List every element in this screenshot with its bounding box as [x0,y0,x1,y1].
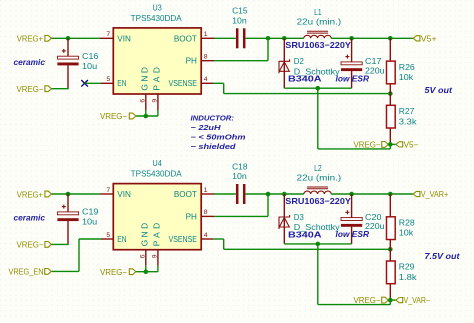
junction ground rail [316,242,321,247]
pin 1 BOOT stub [201,193,214,195]
svg-text:U4: U4 [153,159,163,168]
wire boot cap to inductor [246,37,304,39]
pin 8 PH stub [201,60,214,62]
junction output ground [388,298,393,303]
junction PH node [266,192,271,197]
junction input cap tap [66,192,71,197]
svg-text:4: 4 [204,76,208,83]
svg-text:VREG−: VREG− [100,112,127,121]
pin 5 EN stub [101,82,113,84]
wire VSENSE to divider [213,238,224,240]
diode D3 schottky symbol [279,215,290,229]
svg-text:5: 5 [106,76,110,83]
svg-text:C17: C17 [365,57,382,66]
op-amp U3 TPS5430DDA body [113,28,201,94]
svg-text:EN: EN [117,235,126,244]
svg-text:R27: R27 [399,107,415,116]
svg-text:− 22uH: − 22uH [191,123,222,132]
global label V5+ [413,36,420,41]
svg-text:C15: C15 [232,7,248,16]
svg-text:1.8k: 1.8k [399,273,418,282]
svg-text:ceramic: ceramic [14,213,46,223]
wire ground rail to VREG- row [317,88,319,149]
wire pins 6/9 to VREG- label [136,115,158,117]
resistor R27 body [387,105,396,128]
svg-text:7: 7 [106,31,110,38]
wire VREG+ to VIN [52,193,101,195]
diode D2 schottky symbol [279,59,290,73]
wire inductor to output [331,37,413,39]
svg-text:R28: R28 [399,219,416,228]
svg-text:C18: C18 [232,162,248,171]
no-connect X on EN [81,80,88,87]
pin 5 EN stub U4 [101,238,113,240]
pin 4 VSENSE stub [201,82,213,84]
inductor L1 coil [304,35,331,38]
capacitor C16 plates [57,56,78,59]
capacitor C17 leads [351,38,353,62]
global label V5− [396,142,403,147]
junction PH node [266,36,271,41]
junction diode tap [282,36,287,41]
junction diode tap [282,192,287,197]
junction output cap tap [349,192,354,197]
pin 7 VIN stub [100,37,113,39]
junction pins 6/9 [144,269,149,274]
resistor R26 leads [389,38,391,61]
svg-text:VSENSE: VSENSE [169,79,197,88]
svg-text:R26: R26 [399,63,416,72]
pin 9 PAD lead [157,94,159,110]
svg-text:C16: C16 [82,52,99,61]
svg-text:B340A: B340A [288,230,322,239]
svg-text:1: 1 [204,31,208,38]
svg-text:VREG−: VREG− [100,268,127,277]
capacitor C17 plus sign [345,56,349,58]
resistor R29 leads [389,249,391,261]
diode D2 leads [283,38,285,88]
wire VREG- to cap [52,88,69,90]
svg-text:V_VAR+: V_VAR+ [421,190,449,199]
wire VREG+ to VIN [52,37,101,39]
wire pins 6/9 to VREG- label [136,271,158,273]
junction ground rail [316,86,321,91]
wire inductor to output [331,193,413,195]
svg-text:22u (min.): 22u (min.) [297,173,342,182]
svg-text:low ESR: low ESR [336,74,370,83]
capacitor C16 plus sign [62,50,66,52]
wire BOOT to boot cap [214,37,236,39]
wire BOOT to boot cap [214,193,236,195]
capacitor C20 plates [341,218,362,221]
junction output cap tap [349,36,354,41]
svg-text:low ESR: low ESR [336,230,370,239]
svg-text:GND: GND [139,67,149,91]
resistor R29 body [387,261,396,284]
svg-text:VIN: VIN [117,34,131,43]
svg-text:SRU1063−220Y: SRU1063−220Y [285,196,351,206]
svg-text:PAD: PAD [151,67,161,91]
global label V_VAR− [396,298,403,303]
svg-text:U3: U3 [153,3,163,12]
junction resistor top [388,192,393,197]
svg-text:1: 1 [204,187,208,194]
svg-text:SRU1063−220Y: SRU1063−220Y [285,40,351,50]
svg-text:10n: 10n [232,16,247,25]
wire EN stub [85,82,101,84]
capacitor C19 plus sign [62,206,66,208]
svg-text:INDUCTOR:: INDUCTOR: [191,114,235,123]
capacitor C17 plates [341,62,362,65]
pin 7 VIN stub [100,193,113,195]
svg-text:PAD: PAD [151,223,161,247]
svg-text:VREG−: VREG− [354,140,381,149]
wire VREG- to junction [388,143,396,145]
pin 1 BOOT stub [201,37,214,39]
svg-text:3.3k: 3.3k [399,117,418,126]
junction input cap tap [66,36,71,41]
svg-text:8: 8 [204,209,208,216]
svg-text:B340A: B340A [288,75,322,84]
pin 6 GND lead [145,94,147,110]
svg-text:8: 8 [204,53,208,60]
wire PH riser [214,215,268,217]
global label V_VAR+ [413,191,420,196]
svg-text:VREG−: VREG− [17,240,44,249]
svg-text:7.5V out: 7.5V out [425,251,461,261]
svg-text:D3: D3 [294,213,304,222]
svg-text:4: 4 [204,232,208,239]
svg-text:5: 5 [106,232,110,239]
capacitor C20 leads [351,194,353,218]
svg-text:VREG+: VREG+ [17,190,44,199]
svg-text:VIN: VIN [117,190,131,199]
capacitor C19 leads [67,194,69,212]
svg-text:D2: D2 [294,57,304,66]
svg-text:PH: PH [186,57,197,66]
svg-text:C20: C20 [365,213,382,222]
op-amp U4 TPS5430DDA body [113,184,201,250]
svg-text:10k: 10k [399,229,415,238]
svg-text:7: 7 [106,187,110,194]
svg-text:VREG−: VREG− [354,296,381,305]
pin 8 PH stub [201,215,214,217]
resistor R28 body [387,217,396,240]
svg-text:TPS5430DDA: TPS5430DDA [131,170,183,179]
svg-text:BOOT: BOOT [174,190,197,199]
resistor R27 leads [389,94,391,106]
inductor L2 coil [304,191,331,194]
svg-text:VSENSE: VSENSE [169,235,197,244]
junction divider mid [388,91,393,96]
svg-text:C19: C19 [82,207,99,216]
svg-text:L2: L2 [314,164,322,173]
svg-text:V5+: V5+ [421,34,437,43]
svg-text:V_VAR−: V_VAR− [404,296,431,305]
svg-text:5V out: 5V out [425,85,454,95]
wire VREG- to cap [52,243,69,245]
junction resistor top [388,36,393,41]
svg-text:ceramic: ceramic [14,57,46,67]
svg-text:10k: 10k [399,73,415,82]
svg-text:VREG_EN: VREG_EN [9,267,44,276]
svg-text:V5−: V5− [404,140,419,149]
svg-text:VREG−: VREG− [17,85,44,94]
svg-text:BOOT: BOOT [174,34,197,43]
wire boot cap to inductor [246,193,304,195]
svg-text:EN: EN [117,79,126,88]
pin 9 PAD lead [157,250,159,266]
junction output ground [388,142,393,147]
svg-text:− < 50mOhm: − < 50mOhm [191,133,247,142]
wire ground rail diode to cap [284,243,351,245]
capacitor C20 plus sign [345,211,349,213]
svg-text:VREG+: VREG+ [17,35,44,44]
pin 4 VSENSE stub [201,238,213,240]
diode D3 leads [283,194,285,244]
capacitor C19 plates [57,212,78,215]
wire PH riser [214,60,268,62]
svg-text:10u: 10u [82,62,97,71]
capacitor C15 [236,28,239,48]
svg-text:TPS5430DDA: TPS5430DDA [131,14,183,23]
svg-text:L1: L1 [314,8,322,17]
svg-text:− shielded: − shielded [191,142,237,151]
junction divider mid [388,247,393,252]
capacitor C16 leads [67,38,69,56]
svg-text:10u: 10u [82,218,97,227]
wire ground rail to VREG- row [317,244,319,305]
resistor R26 body [387,61,396,84]
capacitor C18 [236,184,239,204]
resistor R28 leads [389,194,391,217]
svg-text:22u (min.): 22u (min.) [297,18,342,27]
svg-text:GND: GND [139,223,149,247]
wire ground rail diode to cap [284,87,351,89]
junction pins 6/9 [144,114,149,119]
pin 6 GND lead [145,250,147,266]
svg-text:R29: R29 [399,263,415,272]
wire VSENSE to divider [213,82,224,84]
wire EN elbow [79,238,101,240]
svg-text:10n: 10n [232,172,247,181]
wire VREG- to junction [388,299,396,301]
svg-text:PH: PH [186,212,197,221]
